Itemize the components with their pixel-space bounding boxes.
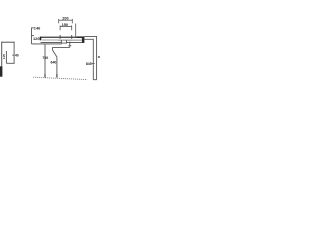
dim 150 left crossing at bar bbox=[59, 35, 61, 39]
side view wall hatch bar bbox=[0, 66, 2, 76]
leader 640 horizontal bbox=[53, 46, 70, 48]
dim 150 right crossing at bar bbox=[71, 35, 73, 39]
bar top edge bbox=[40, 36, 84, 38]
leader 700 foot at floor bbox=[44, 74, 46, 78]
right inner corner line bbox=[84, 39, 93, 79]
dim line 150 bbox=[60, 26, 72, 28]
bar inner line right bbox=[72, 39, 82, 41]
leader 640 foot at floor bbox=[56, 74, 58, 78]
svg-text:640: 640 bbox=[51, 60, 57, 64]
bar inner reflection line left bbox=[42, 39, 58, 41]
svg-text:150: 150 bbox=[62, 22, 69, 27]
right bottom join bbox=[93, 79, 96, 81]
front view bracket mid tick bbox=[31, 35, 34, 37]
svg-text:120: 120 bbox=[33, 36, 40, 41]
leader 640 crossbar bbox=[68, 45, 71, 47]
side view spout top edge bbox=[1, 41, 15, 43]
long leader line under bar to union bottom bbox=[32, 43, 62, 45]
dim line 200 bbox=[59, 19, 73, 21]
dim 150 left end tick bbox=[59, 25, 61, 30]
svg-text:146: 146 bbox=[34, 26, 41, 31]
leader 640 up tick to bar bbox=[69, 42, 71, 48]
svg-text:115: 115 bbox=[2, 54, 6, 59]
right outer corner line bbox=[84, 36, 96, 79]
bar top edge right thick segment bbox=[77, 36, 85, 38]
bar inner line mid bbox=[58, 39, 72, 41]
right dim tick bbox=[92, 62, 95, 64]
side view wall line bbox=[1, 42, 3, 67]
bar bottom edge right segment bbox=[67, 41, 84, 43]
side view spout bottom edge bbox=[6, 62, 14, 64]
svg-text:845: 845 bbox=[86, 62, 92, 66]
floor dashed reference line bbox=[33, 77, 87, 79]
centerline right valve bbox=[75, 24, 77, 38]
dim 200 right end tick bbox=[71, 19, 73, 23]
bar right spout end bbox=[82, 37, 85, 43]
union notch bbox=[61, 40, 66, 43]
svg-text:95: 95 bbox=[98, 55, 100, 59]
leader 640 corner and vertical to floor bbox=[53, 47, 57, 77]
svg-text:200: 200 bbox=[62, 17, 68, 21]
dim 150 right end tick bbox=[71, 25, 73, 30]
side view arrow tick at front edge bbox=[13, 55, 14, 56]
bar bottom edge left segment bbox=[41, 41, 62, 43]
svg-text:40: 40 bbox=[15, 54, 19, 58]
side view spout inner edge bbox=[5, 51, 7, 63]
side view spout front edge bbox=[13, 42, 15, 63]
bar left end cap bbox=[40, 37, 42, 41]
svg-text:700: 700 bbox=[42, 56, 48, 60]
front view left dim bracket vertical bbox=[31, 28, 33, 44]
dim 200 left end tick bbox=[58, 19, 60, 23]
front view bracket top tick bbox=[31, 27, 34, 29]
leader 700 vertical to floor bbox=[44, 44, 46, 78]
